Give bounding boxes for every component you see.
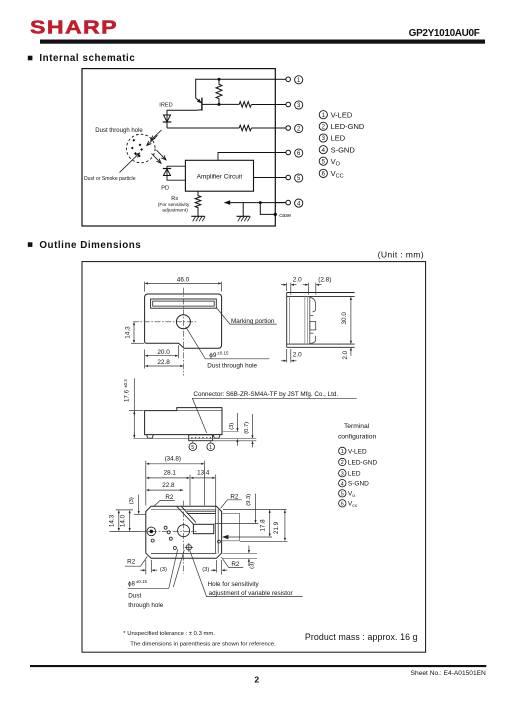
dim 21.9 bbox=[240, 510, 288, 541]
svg-text:Internal schematic: Internal schematic bbox=[39, 53, 135, 64]
dust through hole (dashed circle) bbox=[127, 134, 156, 163]
terminal configuration list bbox=[339, 447, 378, 509]
label: Dust through hole bbox=[95, 128, 143, 134]
IRED emission arrows bbox=[147, 130, 162, 146]
header rule bbox=[40, 40, 485, 44]
bottom view connector cavity bbox=[193, 524, 213, 533]
section heading: Outline Dimensions bbox=[28, 240, 142, 251]
svg-text:ϕ9: ϕ9 bbox=[209, 352, 217, 359]
svg-text:1: 1 bbox=[341, 449, 344, 455]
svg-text:cc: cc bbox=[352, 504, 357, 509]
pin 5 terminal bbox=[275, 174, 303, 182]
svg-text:1: 1 bbox=[209, 445, 212, 451]
svg-text:±0.15: ±0.15 bbox=[136, 579, 148, 584]
wire: amplifier to pin 6 (Vcc) bbox=[218, 153, 275, 161]
svg-text:LED: LED bbox=[348, 471, 361, 478]
svg-text:SHARP: SHARP bbox=[30, 18, 118, 38]
ground (S-GND) bbox=[237, 216, 251, 221]
svg-text:22.8: 22.8 bbox=[157, 359, 170, 366]
dim 17.8 bbox=[222, 509, 287, 539]
dim 17.6 bbox=[123, 378, 144, 437]
svg-text:through hole: through hole bbox=[128, 602, 164, 609]
wire: base to pin 3 bbox=[202, 103, 239, 105]
bottom view right extension plate bbox=[222, 513, 240, 541]
dim (0.7) right of middle view bbox=[213, 414, 257, 448]
svg-text:S-GND: S-GND bbox=[331, 145, 356, 154]
svg-text:Outline Dimensions: Outline Dimensions bbox=[39, 240, 141, 251]
baseline extension bbox=[133, 437, 256, 439]
bottom view dust hole bbox=[178, 525, 190, 537]
resistor R2 (pin 3 series) bbox=[239, 102, 251, 108]
callout: sensitivity adjustment hole bbox=[190, 551, 303, 598]
resistor R3 (pin 2 series) bbox=[239, 125, 251, 131]
dim 22.8 bbox=[145, 359, 183, 366]
svg-text:6: 6 bbox=[341, 501, 344, 507]
footer sheet number bbox=[411, 670, 486, 677]
pin 5 marker bbox=[189, 441, 197, 451]
wire: resistor to pin 3 bbox=[252, 104, 276, 106]
svg-text:5: 5 bbox=[191, 445, 194, 451]
notes bbox=[123, 631, 276, 647]
dims 14.3 and 14.0 bbox=[109, 510, 141, 532]
product mass bbox=[305, 632, 418, 642]
dim 13.4 bbox=[191, 470, 216, 509]
transistor Q1 (PNP LED driver) bbox=[196, 98, 202, 111]
dim 28.1 bbox=[147, 470, 191, 506]
dim 20.0 bbox=[145, 345, 179, 368]
dim (3) right of middle view bbox=[222, 413, 239, 446]
dim (3) bottom right bbox=[202, 560, 227, 575]
sensitivity adjustment hole bbox=[185, 543, 193, 551]
svg-text:GP2Y1010AU0F: GP2Y1010AU0F bbox=[409, 28, 480, 39]
svg-text:adjustment): adjustment) bbox=[162, 207, 188, 213]
svg-text:LED: LED bbox=[331, 134, 346, 143]
footer rule bbox=[30, 665, 486, 667]
connector body bbox=[189, 435, 213, 441]
pin 4 terminal bbox=[275, 199, 303, 207]
SHARP logo bbox=[30, 18, 118, 38]
svg-text:V-LED: V-LED bbox=[331, 110, 353, 119]
front view slot (window) bbox=[151, 299, 217, 308]
diode IRED (infrared emitter) bbox=[163, 115, 172, 128]
callout R2 top left bbox=[154, 494, 175, 507]
svg-text:2: 2 bbox=[254, 675, 259, 685]
pin 1 marker bbox=[207, 441, 215, 451]
svg-text:Marking portion: Marking portion bbox=[231, 318, 275, 325]
dim 46.0 bbox=[145, 277, 222, 292]
dim 2.0 (bottom left of side view) bbox=[281, 349, 302, 363]
svg-text:Dust through hole: Dust through hole bbox=[95, 128, 143, 134]
callout R2 bottom left bbox=[125, 557, 148, 567]
svg-text:IRED: IRED bbox=[159, 102, 172, 108]
svg-text:14.3: 14.3 bbox=[125, 326, 132, 339]
pin 1 terminal bbox=[275, 76, 303, 84]
wire: PD anode to amplifier bbox=[167, 176, 185, 181]
svg-text:46.0: 46.0 bbox=[177, 277, 190, 284]
node: pin4-case junction bbox=[259, 201, 262, 204]
dust particles bbox=[131, 139, 143, 157]
photodiode PD bbox=[163, 169, 171, 176]
svg-text:28.1: 28.1 bbox=[164, 470, 177, 477]
resistor Rs (sensitivity adjustment) bbox=[195, 191, 201, 216]
wire: PD cathode to amplifier bbox=[167, 166, 185, 168]
wire: resistor to pin 2 bbox=[252, 127, 276, 129]
dim (3) bottom left bbox=[140, 560, 167, 575]
svg-text:Sheet No.: E4-A01501EN: Sheet No.: E4-A01501EN bbox=[411, 670, 486, 677]
svg-text:±0.15: ±0.15 bbox=[217, 351, 229, 356]
callout: dust hole diameter (bottom view) bbox=[128, 549, 185, 609]
bottom view small holes bbox=[151, 526, 220, 549]
front view body bbox=[145, 294, 222, 348]
bottom view centerlines bbox=[140, 501, 196, 574]
label: Rs (For sensitivity adjustment) bbox=[158, 196, 190, 213]
svg-text:Hole for sensitivity: Hole for sensitivity bbox=[208, 581, 260, 588]
bottom view body outline bbox=[146, 506, 222, 558]
svg-text:(9.3): (9.3) bbox=[246, 494, 252, 506]
callout: dust hole diameter bbox=[186, 327, 270, 370]
svg-text:21.9: 21.9 bbox=[273, 521, 280, 534]
svg-text:(3): (3) bbox=[202, 567, 209, 573]
svg-text:Dust through hole: Dust through hole bbox=[207, 363, 257, 370]
svg-text:O: O bbox=[336, 161, 341, 167]
unit note bbox=[378, 250, 424, 260]
svg-text:LED-GND: LED-GND bbox=[331, 122, 365, 131]
side view flanges bbox=[287, 293, 355, 348]
dim (3) top left bbox=[129, 495, 146, 515]
svg-text:ϕ8: ϕ8 bbox=[128, 581, 135, 588]
callout: Marking portion bbox=[216, 308, 276, 325]
dim (9.3) bbox=[215, 494, 259, 524]
svg-text:Dust or Smoke particle: Dust or Smoke particle bbox=[84, 176, 136, 182]
svg-text:2.0: 2.0 bbox=[293, 351, 302, 358]
wire: junction to case bbox=[260, 203, 275, 215]
label: PD bbox=[161, 185, 169, 191]
label: Dust or Smoke particle bbox=[84, 176, 136, 182]
label: case bbox=[279, 213, 291, 219]
svg-text:14.3: 14.3 bbox=[109, 514, 116, 527]
svg-text:R2: R2 bbox=[231, 561, 240, 568]
svg-text:(Unit : mm): (Unit : mm) bbox=[378, 250, 424, 260]
svg-text:(3): (3) bbox=[229, 423, 235, 430]
resistor R1 (vertical, rail to base) bbox=[216, 79, 222, 104]
svg-text:configuration: configuration bbox=[338, 433, 377, 440]
wire: pin 4 line with arrow bbox=[224, 200, 286, 205]
svg-text:Dust: Dust bbox=[128, 592, 141, 599]
svg-text:2.0: 2.0 bbox=[342, 350, 349, 359]
dim 30.0 bbox=[341, 297, 351, 343]
svg-text:CC: CC bbox=[336, 174, 344, 180]
svg-text:R2: R2 bbox=[230, 493, 239, 500]
svg-text:Amplifier Circuit: Amplifier Circuit bbox=[197, 173, 243, 180]
IRED label bbox=[159, 102, 172, 108]
svg-text:o: o bbox=[352, 494, 355, 499]
svg-text:17.6: 17.6 bbox=[124, 389, 131, 402]
svg-text:(34.8): (34.8) bbox=[165, 455, 181, 462]
svg-text:5: 5 bbox=[341, 491, 344, 497]
callout: connector type bbox=[192, 391, 356, 433]
wire: collector to IRED bbox=[167, 110, 196, 115]
dim 2.0 (top left of side view) bbox=[281, 277, 302, 295]
middle view feet bbox=[147, 435, 220, 439]
wire: V-LED top rail bbox=[196, 79, 276, 98]
wire: IRED cathode to pin 2 bbox=[167, 127, 239, 129]
svg-text:Rs: Rs bbox=[171, 196, 178, 202]
svg-text:20.0: 20.0 bbox=[157, 349, 170, 356]
svg-text:30.0: 30.0 bbox=[341, 312, 348, 325]
ground (below Rs) bbox=[191, 216, 205, 221]
legend: pin names bbox=[319, 110, 365, 179]
page number bbox=[254, 675, 259, 685]
svg-text:(3): (3) bbox=[250, 562, 256, 569]
op-amp U1 Amplifier Circuit bbox=[185, 160, 253, 191]
callout R2 top right bbox=[221, 493, 242, 508]
dim 14.3 bbox=[125, 323, 145, 344]
svg-text:Connector: S6B-ZR-SM4A-TF by J: Connector: S6B-ZR-SM4A-TF by JST Mfg. Co… bbox=[193, 391, 338, 398]
svg-text:R2: R2 bbox=[165, 494, 174, 501]
bottom view right wall bbox=[216, 509, 219, 553]
terminal configuration heading bbox=[338, 423, 377, 440]
wire: amplifier to pin 5 (Vo) bbox=[254, 177, 276, 179]
front view centerlines bbox=[133, 288, 196, 376]
svg-text:Terminal: Terminal bbox=[344, 423, 370, 430]
svg-text:2.0: 2.0 bbox=[293, 277, 302, 284]
svg-text:V-LED: V-LED bbox=[348, 448, 367, 455]
schematic outer box bbox=[82, 69, 275, 226]
pin 2 terminal bbox=[275, 124, 303, 132]
dim 22.8 (bottom view) bbox=[147, 482, 183, 490]
svg-text:3: 3 bbox=[341, 471, 344, 477]
svg-text:LED-GND: LED-GND bbox=[348, 459, 378, 466]
svg-text:Product mass : approx. 16 g: Product mass : approx. 16 g bbox=[305, 632, 418, 642]
svg-text:14.0: 14.0 bbox=[120, 514, 127, 527]
svg-text:(For sensitivity: (For sensitivity bbox=[158, 202, 190, 208]
svg-text:S-GND: S-GND bbox=[348, 481, 369, 488]
pin 6 terminal bbox=[275, 149, 303, 157]
svg-text:(0.7): (0.7) bbox=[244, 422, 250, 434]
pin 3 terminal bbox=[275, 101, 303, 109]
node: base-resistor junction bbox=[218, 103, 221, 106]
svg-text:adjustment of variable resisto: adjustment of variable resistor bbox=[209, 590, 293, 597]
svg-text:2: 2 bbox=[341, 460, 344, 466]
svg-text:case: case bbox=[279, 213, 291, 219]
svg-text:4: 4 bbox=[341, 481, 344, 487]
svg-text:(2.8): (2.8) bbox=[318, 277, 331, 284]
svg-text:17.8: 17.8 bbox=[259, 519, 266, 532]
callout R2 bottom right bbox=[221, 557, 243, 568]
node: case connection bbox=[274, 213, 277, 216]
svg-text:13.4: 13.4 bbox=[197, 470, 210, 477]
dim (3) far right rotated bbox=[223, 546, 258, 569]
dim (34.8) bbox=[146, 455, 205, 505]
wire: ground branch bbox=[242, 203, 244, 217]
bottom view mounting boss bbox=[147, 527, 156, 536]
node: rail-resistor junction bbox=[218, 78, 221, 81]
dim 2.0 (bottom right of side view) bbox=[342, 348, 351, 360]
front view dust hole circle bbox=[176, 315, 190, 329]
svg-text:R2: R2 bbox=[127, 559, 136, 566]
scattered light arrows bbox=[152, 150, 167, 163]
part number GP2Y1010AU0F bbox=[409, 28, 480, 39]
svg-text:(3): (3) bbox=[129, 497, 135, 504]
svg-text:The dimensions in parenthesis: The dimensions in parenthesis are shown … bbox=[130, 641, 276, 647]
svg-text:22.8: 22.8 bbox=[162, 482, 175, 489]
outline figure frame bbox=[82, 262, 426, 653]
middle view body bbox=[145, 408, 222, 435]
bottom view funnel walls bbox=[177, 507, 216, 525]
svg-text:PD: PD bbox=[161, 185, 169, 191]
section heading: Internal schematic bbox=[28, 53, 136, 64]
label arrow: Dust or Smoke particle bbox=[120, 153, 140, 173]
svg-text:(3): (3) bbox=[160, 567, 167, 573]
side view lens profile bbox=[310, 296, 316, 344]
side view web and board bbox=[290, 296, 308, 344]
svg-text:* Unspecified tolerance : ± 0.: * Unspecified tolerance : ± 0.3 mm. bbox=[123, 631, 215, 637]
dim (2.8) bbox=[303, 277, 332, 295]
svg-text:±0.3: ±0.3 bbox=[123, 379, 128, 388]
